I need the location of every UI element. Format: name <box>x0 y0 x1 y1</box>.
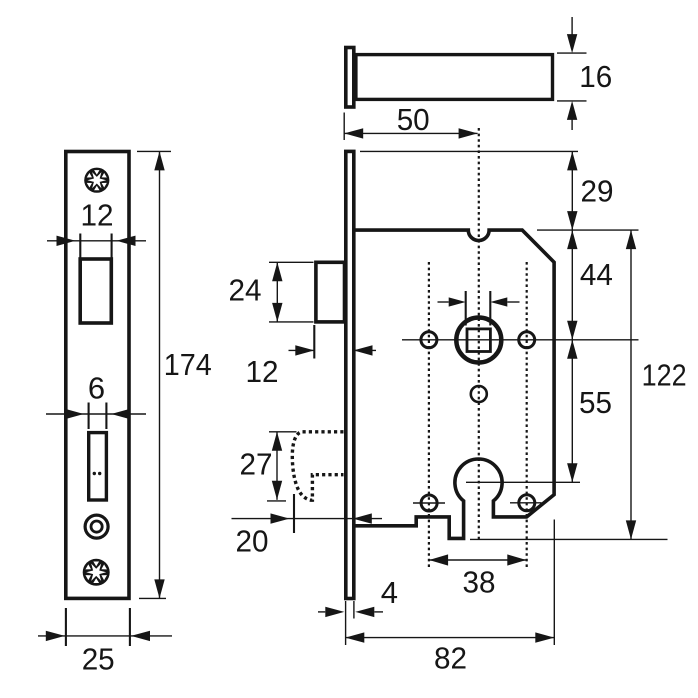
svg-text:12: 12 <box>246 354 279 389</box>
svg-text:16: 16 <box>579 59 612 94</box>
svg-text:24: 24 <box>229 273 262 308</box>
svg-text:44: 44 <box>580 257 613 292</box>
svg-text:122: 122 <box>642 358 687 393</box>
svg-text:6: 6 <box>88 371 105 406</box>
svg-text:82: 82 <box>434 640 467 675</box>
svg-text:12: 12 <box>81 198 114 233</box>
svg-text:55: 55 <box>579 385 612 420</box>
svg-text:4: 4 <box>381 575 398 610</box>
svg-text:20: 20 <box>236 524 269 559</box>
svg-text:174: 174 <box>164 347 212 382</box>
svg-text:38: 38 <box>463 565 496 600</box>
svg-text:50: 50 <box>397 102 430 137</box>
svg-text:29: 29 <box>581 174 614 209</box>
svg-text:25: 25 <box>82 641 115 676</box>
svg-text:27: 27 <box>240 447 273 482</box>
